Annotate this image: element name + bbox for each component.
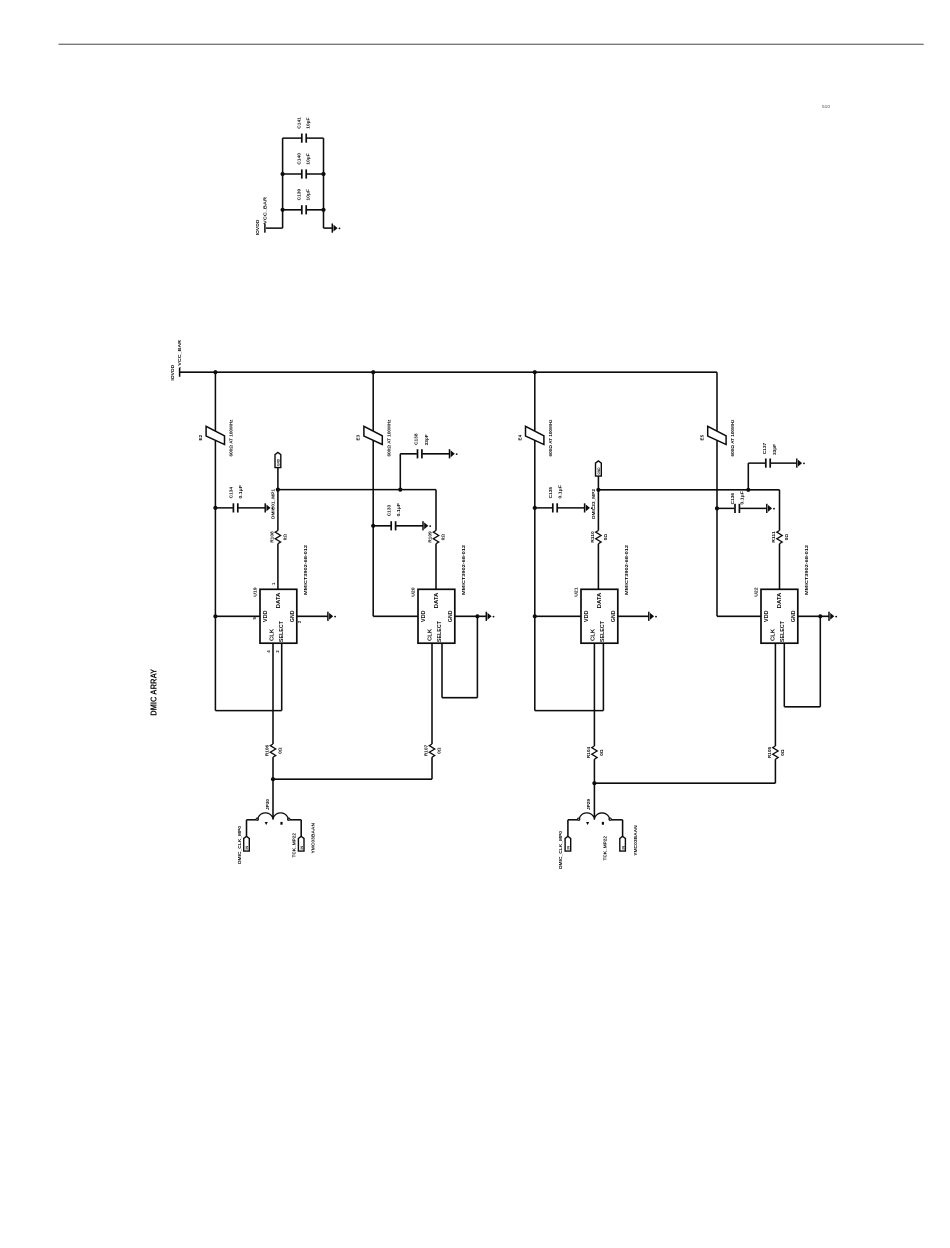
power flag IOVDD / VCC_BAR (main rail)	[179, 368, 181, 377]
capacitor C140 10uF	[283, 173, 302, 175]
wire U19 CLK down	[272, 643, 274, 744]
wire U21 CLK down	[593, 643, 595, 746]
svg-text:0Ω: 0Ω	[437, 747, 442, 754]
wire bottom right to ground	[324, 227, 333, 229]
wire left clock horizontal	[273, 778, 432, 780]
ground at C136	[766, 504, 768, 513]
svg-text:10µF: 10µF	[305, 117, 310, 129]
svg-text:SELECT: SELECT	[279, 620, 285, 642]
svg-text:IOVDD: IOVDD	[255, 219, 261, 235]
svg-text:0Ω: 0Ω	[283, 534, 288, 541]
svg-text:DMIC01_MP1: DMIC01_MP1	[270, 489, 275, 519]
svg-text:U19: U19	[252, 587, 258, 597]
wire R108 to U19 DATA pin 1	[277, 544, 279, 590]
svg-text:0.1µF: 0.1µF	[238, 485, 243, 499]
wire E2 vertical (VDD of U19, SELECT tie)	[214, 372, 216, 710]
wire DMIC23 horizontal	[598, 489, 779, 491]
svg-text:33pF: 33pF	[772, 444, 777, 455]
wire U22 CLK down	[774, 643, 776, 746]
node DMIC01_MP1	[276, 488, 280, 492]
wire right clock horizontal	[594, 782, 775, 784]
junction left clock node	[271, 777, 275, 781]
svg-text:0Ω: 0Ω	[278, 747, 283, 754]
svg-text:R110: R110	[590, 531, 595, 543]
junction right clock node	[592, 781, 596, 785]
svg-text:4: 4	[266, 650, 271, 653]
svg-text:E2: E2	[198, 434, 203, 440]
svg-text:U21: U21	[573, 587, 579, 597]
svg-text:DMIC_CLK_MP0: DMIC_CLK_MP0	[237, 826, 242, 864]
capacitor C141 10uF	[283, 137, 302, 139]
svg-text:VDD: VDD	[421, 610, 427, 622]
ground (top circuit)	[331, 224, 333, 233]
svg-text:600Ω AT 100MHz: 600Ω AT 100MHz	[386, 419, 391, 457]
svg-text:VDD: VDD	[263, 610, 269, 622]
node DMIC23_MP2	[596, 488, 600, 492]
svg-text:R107: R107	[424, 744, 429, 756]
jumper JP29 pin marks	[586, 822, 589, 825]
svg-text:GND: GND	[791, 610, 797, 622]
DMIC IC U19 MMICT3902-68-012	[260, 589, 297, 643]
ground at U21	[648, 612, 650, 621]
resistor R109 0&#937;	[433, 531, 438, 544]
svg-text:R105: R105	[767, 746, 772, 758]
svg-text:U20: U20	[410, 587, 416, 597]
svg-text:JP30: JP30	[265, 799, 270, 810]
ground at C137	[796, 459, 798, 468]
svg-text:C133: C133	[386, 504, 391, 516]
svg-text:10µF: 10µF	[305, 153, 310, 165]
wire U21 GND	[618, 615, 649, 617]
svg-text:GND: GND	[611, 610, 617, 622]
svg-text:C137: C137	[762, 442, 767, 454]
capacitor C133 0.1&#181;F	[371, 524, 375, 528]
resistor R108 0&#937;	[275, 531, 280, 544]
wire R105 to clock node	[774, 759, 776, 783]
svg-text:SELECT: SELECT	[780, 620, 786, 642]
svg-text:2: 2	[275, 650, 280, 653]
wire R111 to U22 DATA	[779, 544, 781, 590]
svg-text:MMICT3902-68-012: MMICT3902-68-012	[804, 544, 809, 595]
svg-text:33pF: 33pF	[424, 434, 429, 445]
svg-text:1: 1	[271, 582, 276, 585]
wire bottom left to power flag	[266, 227, 283, 229]
svg-text:DATA: DATA	[597, 592, 603, 608]
svg-text:IOVDD: IOVDD	[170, 364, 176, 380]
svg-text:R108: R108	[270, 531, 275, 543]
svg-text:0.1µF: 0.1µF	[557, 485, 562, 499]
svg-text:TCK_MP22: TCK_MP22	[291, 833, 296, 858]
svg-text:510: 510	[822, 104, 830, 110]
junction rail/E3	[371, 370, 375, 374]
wire U21 VDD	[533, 614, 537, 618]
svg-text:E5: E5	[700, 434, 705, 440]
wire U22 GND	[798, 615, 829, 617]
jumper JP29 left pin wire to DMIC_CLK_MP0 flag	[568, 819, 578, 821]
capacitor C137 33pF branch	[746, 488, 750, 492]
DMIC IC U21 MMICT3902-68-012	[581, 589, 618, 643]
DMIC IC U20 MMICT3902-68-012	[418, 589, 455, 643]
junction U22 gnd/select	[818, 614, 822, 618]
svg-text:C134: C134	[229, 486, 234, 498]
wire flag to DMIC23 junction	[597, 476, 599, 490]
wire DMIC01 to R108	[277, 490, 279, 531]
svg-text:3: 3	[297, 620, 302, 623]
ground at U20	[485, 612, 487, 621]
svg-text:0.1µF: 0.1µF	[740, 491, 745, 505]
resistor R110 0&#937;	[596, 531, 601, 544]
svg-text:IN: IN	[621, 846, 625, 850]
capacitor C134 0.1&#181;F	[213, 506, 217, 510]
wire U20 SELECT to GND loop	[476, 616, 478, 697]
svg-text:→VCC_BAR: →VCC_BAR	[177, 339, 183, 371]
resistor R106 0&#937;	[270, 744, 275, 757]
resistor R104 0&#937;	[592, 746, 597, 759]
ferrite bead E5 600ohm AT 100MHz	[708, 426, 726, 444]
wire flag to DMIC01 junction	[277, 468, 279, 490]
svg-text:GND: GND	[290, 610, 296, 622]
svg-text:SELECT: SELECT	[600, 620, 606, 642]
resistor R111 0&#937;	[777, 531, 782, 544]
svg-text:CLK: CLK	[771, 629, 777, 641]
svg-text:0Ω: 0Ω	[599, 749, 604, 756]
svg-text:DATA: DATA	[434, 592, 440, 608]
page top rule	[59, 43, 924, 45]
capacitor C135 0.1&#181;F	[533, 506, 537, 510]
svg-text:DMIC23_MP2: DMIC23_MP2	[591, 489, 596, 519]
svg-text:SELECT: SELECT	[437, 620, 443, 642]
svg-text:C136: C136	[730, 492, 735, 504]
svg-text:IN: IN	[567, 846, 571, 850]
ferrite bead E4 600ohm AT 100MHz	[526, 426, 544, 444]
junction dots on C140 row	[281, 172, 285, 176]
svg-text:TCK_MP22: TCK_MP22	[602, 836, 607, 861]
junction rail/E4	[533, 370, 537, 374]
svg-text:DMIC ARRAY: DMIC ARRAY	[149, 668, 158, 715]
svg-text:MMICT3902-68-012: MMICT3902-68-012	[303, 544, 308, 595]
wire R109 to U20 DATA	[435, 544, 437, 590]
svg-text:10µF: 10µF	[305, 189, 310, 201]
svg-text:JP29: JP29	[586, 799, 591, 810]
jumper JP29 arcs	[579, 813, 609, 820]
svg-text:DATA: DATA	[276, 592, 282, 608]
wire DMIC01 horizontal	[278, 489, 436, 491]
svg-text:E3: E3	[356, 434, 361, 440]
svg-text:600Ω AT 100MHz: 600Ω AT 100MHz	[730, 419, 735, 457]
jumper JP30 center drop wire	[272, 779, 274, 818]
ferrite bead E2 600ohm AT 100MHz	[206, 426, 224, 444]
power flag IOVDD / VCC_BAR (top circuit)	[264, 224, 266, 233]
wire E4 vertical (VDD of U21, SELECT tie)	[534, 372, 536, 710]
jumper JP30 left pin wire to DMIC_CLK_MP0 flag	[247, 819, 257, 821]
ferrite bead E3 600ohm AT 100MHz	[364, 426, 382, 444]
svg-text:CLK: CLK	[270, 629, 276, 641]
svg-text:600Ω AT 100MHz: 600Ω AT 100MHz	[229, 419, 234, 457]
svg-text:E4: E4	[517, 434, 522, 440]
svg-text:R106: R106	[265, 744, 270, 756]
svg-text:YMC03BAAN: YMC03BAAN	[311, 822, 316, 853]
svg-text:CLK: CLK	[428, 629, 434, 641]
svg-text:0.1µF: 0.1µF	[396, 503, 401, 517]
net flag GND (DMIC23 net)	[596, 461, 602, 476]
ground at C134	[264, 503, 266, 512]
svg-text:DMIC_CLK_MP0: DMIC_CLK_MP0	[558, 831, 563, 869]
wire E3 vertical (VDD of U20)	[372, 372, 374, 616]
svg-text:VCC_BAR: VCC_BAR	[262, 196, 268, 224]
ground at U22	[828, 612, 830, 621]
svg-text:MMICT3902-68-012: MMICT3902-68-012	[624, 544, 629, 595]
jumper JP30 arcs	[258, 813, 288, 820]
wire R106 to clock node	[272, 757, 274, 779]
capacitor C138 33pF branch	[398, 488, 402, 492]
svg-text:600Ω AT 100MHz: 600Ω AT 100MHz	[548, 419, 553, 457]
junction U20 gnd/select	[475, 614, 479, 618]
svg-text:MMICT3902-68-012: MMICT3902-68-012	[461, 544, 466, 595]
wire U22 SELECT to GND loop	[819, 616, 821, 707]
ground at C138	[449, 449, 451, 458]
svg-text:R109: R109	[428, 531, 433, 543]
wire down to R111 / U22 DATA	[779, 490, 781, 531]
wire R104 to clock node	[593, 759, 595, 783]
jumper JP30 pin marks	[265, 822, 268, 825]
DMIC IC U22 MMICT3902-68-012	[761, 589, 798, 643]
svg-text:YMC03BAAN: YMC03BAAN	[633, 825, 638, 856]
wire U19 GND pin 3	[297, 615, 328, 617]
svg-text:C135: C135	[548, 486, 553, 498]
jumper JP30 right pin wire to TCK_MP22 flag	[290, 819, 302, 821]
capacitor C139 10uF	[283, 209, 302, 211]
svg-text:GND: GND	[448, 610, 454, 622]
capacitor C136 0.1&#181;F	[715, 506, 719, 510]
svg-text:VDD: VDD	[764, 610, 770, 622]
ground at U19	[327, 612, 329, 621]
jumper JP29 right pin wire to TCK_MP22 flag	[611, 819, 623, 821]
svg-text:GND: GND	[597, 467, 601, 475]
svg-text:0Ω: 0Ω	[441, 534, 446, 541]
ground at C135	[584, 503, 586, 512]
svg-text:GND: GND	[277, 458, 281, 466]
svg-text:C140: C140	[296, 153, 301, 165]
svg-text:C138: C138	[414, 433, 419, 445]
resistor R107 0&#937;	[429, 744, 434, 757]
wire down to R109 / U20 DATA	[435, 490, 437, 531]
svg-text:R104: R104	[586, 746, 591, 758]
ground at C133	[422, 521, 424, 530]
svg-text:R111: R111	[771, 531, 776, 543]
svg-text:VDD: VDD	[584, 610, 590, 622]
wire R110 to U21 DATA	[597, 544, 599, 590]
wire U20 CLK down	[431, 643, 433, 744]
svg-text:DATA: DATA	[777, 592, 783, 608]
svg-text:0Ω: 0Ω	[784, 534, 789, 541]
wire R107 to clock node	[431, 757, 433, 779]
resistor R105 0&#937;	[773, 746, 778, 759]
wire right rail of bulk cap bank	[323, 138, 325, 228]
wire main IOVDD top rail	[180, 371, 717, 373]
wire E5 vertical (VDD of U22)	[716, 372, 718, 616]
svg-text:0Ω: 0Ω	[603, 534, 608, 541]
wire U20 GND	[455, 615, 487, 617]
svg-text:CLK: CLK	[591, 629, 597, 641]
wire left rail of bulk cap bank	[282, 138, 284, 228]
wire DMIC23 to R110	[597, 490, 599, 531]
svg-text:C141: C141	[296, 117, 301, 129]
net flag GND (DMIC01 net)	[275, 452, 281, 467]
svg-text:0Ω: 0Ω	[780, 749, 785, 756]
junction rail/E2	[213, 370, 217, 374]
svg-text:IN: IN	[245, 846, 249, 850]
svg-text:C139: C139	[296, 188, 301, 200]
jumper JP29 center drop wire	[593, 783, 595, 818]
svg-text:IN: IN	[300, 846, 304, 850]
svg-text:U22: U22	[753, 587, 759, 597]
wire U19 VDD	[213, 614, 217, 618]
junction dots on C139 row	[281, 208, 285, 212]
